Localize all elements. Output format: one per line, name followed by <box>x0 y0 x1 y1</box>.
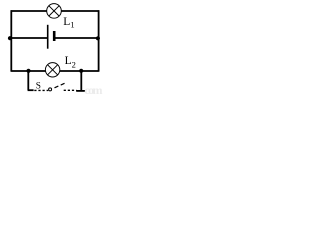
wire bottom left <box>11 70 45 72</box>
node middle-left junction <box>8 36 12 40</box>
wire switch branch right foot <box>76 90 85 92</box>
label S <box>36 82 41 92</box>
switch S lever (dashed) <box>55 83 66 88</box>
wire right vertical <box>98 10 100 71</box>
wire bottom right <box>60 70 99 72</box>
node bottom-left junction <box>26 69 30 73</box>
wire switch branch right riser <box>80 71 82 91</box>
watermark com <box>84 83 102 97</box>
wire middle left <box>11 37 47 39</box>
switch S pivot <box>49 88 52 91</box>
svg-text:S: S <box>36 82 41 92</box>
wire switch branch dashed right <box>64 89 77 91</box>
node bottom-right junction <box>79 69 83 73</box>
svg-text:com: com <box>84 83 102 95</box>
wire left vertical <box>10 10 12 71</box>
battery cell: long plate <box>47 25 49 49</box>
wire top <box>11 10 100 12</box>
wire switch branch dashed left <box>34 89 48 91</box>
battery cell: short thick plate <box>53 31 56 41</box>
svg-text:1: 1 <box>70 19 74 29</box>
wire middle right <box>56 37 99 39</box>
label L2 <box>65 55 76 70</box>
svg-text:L: L <box>63 16 70 28</box>
label L1 <box>63 16 74 29</box>
node middle-right junction <box>96 36 100 40</box>
lamp L1 <box>47 4 62 19</box>
svg-text:L: L <box>65 55 72 67</box>
lamp L2 <box>45 63 59 77</box>
svg-text:2: 2 <box>72 59 76 69</box>
wire switch branch left riser <box>28 71 34 90</box>
